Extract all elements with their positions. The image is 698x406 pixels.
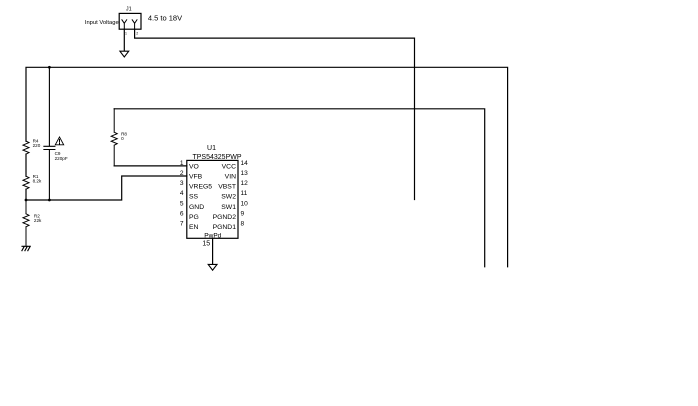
pin numbers U1 right xyxy=(241,160,249,228)
ground (U1 thermal pad) xyxy=(208,264,217,270)
svg-text:9: 9 xyxy=(241,210,245,217)
wire FB rail xyxy=(26,176,187,200)
svg-text:U1: U1 xyxy=(207,145,216,152)
ground (J1 input return) xyxy=(120,51,129,57)
svg-text:PG: PG xyxy=(189,214,199,221)
wire J1 pin1 to ground xyxy=(123,29,125,51)
resistor R8 xyxy=(111,109,127,166)
svg-text:8: 8 xyxy=(241,221,245,228)
svg-text:VIN: VIN xyxy=(225,174,236,181)
wire VO pin1 to R8 xyxy=(114,165,187,167)
svg-text:Input Voltage: Input Voltage xyxy=(85,20,119,26)
svg-text:8.2k: 8.2k xyxy=(33,179,42,184)
ground (R2, analog) xyxy=(22,246,30,250)
svg-text:5: 5 xyxy=(180,200,184,207)
svg-text:VCC: VCC xyxy=(222,163,236,170)
svg-text:7: 7 xyxy=(180,221,184,228)
svg-text:2: 2 xyxy=(136,32,138,36)
connector J1 xyxy=(119,6,141,35)
svg-text:SW2: SW2 xyxy=(221,194,236,201)
svg-text:2: 2 xyxy=(180,170,184,177)
pin labels U1 right xyxy=(213,163,237,231)
svg-text:1: 1 xyxy=(125,32,127,36)
resistor R2 xyxy=(23,200,42,246)
svg-text:12: 12 xyxy=(241,180,249,187)
wire R4 to R1 xyxy=(25,154,27,176)
svg-text:PGND1: PGND1 xyxy=(213,224,237,231)
svg-text:220: 220 xyxy=(33,143,41,148)
svg-text:10: 10 xyxy=(241,200,249,207)
op-amp U1 TPS54325PWP body xyxy=(187,145,242,247)
svg-text:EN: EN xyxy=(189,224,199,231)
svg-text:6: 6 xyxy=(180,210,184,217)
svg-text:VFB: VFB xyxy=(189,174,203,181)
node FB junctions xyxy=(25,199,28,202)
svg-text:22k: 22k xyxy=(34,218,42,223)
svg-text:1: 1 xyxy=(180,160,184,167)
svg-text:J1: J1 xyxy=(126,6,132,12)
pin labels U1 left xyxy=(189,163,212,231)
wire VO sense top rail: divider top to output rail xyxy=(26,67,508,266)
svg-text:13: 13 xyxy=(241,170,249,177)
pin numbers U1 left xyxy=(180,160,184,228)
svg-text:220pF: 220pF xyxy=(55,156,68,161)
node top rail / C9 junction xyxy=(48,66,51,69)
svg-text:SW1: SW1 xyxy=(221,204,236,211)
svg-text:0: 0 xyxy=(121,136,124,141)
svg-text:SS: SS xyxy=(189,194,199,201)
svg-text:VREG5: VREG5 xyxy=(189,184,212,191)
warning triangle (C9) xyxy=(55,137,63,145)
svg-text:15: 15 xyxy=(202,241,210,248)
svg-text:PGND2: PGND2 xyxy=(213,214,237,221)
svg-text:4.5 to 18V: 4.5 to 18V xyxy=(148,14,182,23)
wire R8 to output rail xyxy=(114,109,485,267)
wire R1 to FB rail xyxy=(25,189,27,200)
svg-text:4: 4 xyxy=(180,190,184,197)
svg-text:TPS54325PWP: TPS54325PWP xyxy=(192,154,241,161)
wire U1 pin15 PwPd to ground xyxy=(212,238,214,264)
svg-text:GND: GND xyxy=(189,204,204,211)
svg-text:14: 14 xyxy=(241,160,249,167)
svg-text:VO: VO xyxy=(189,163,199,170)
resistor R1 xyxy=(23,174,42,189)
wire VIN net: J1 pin2 down, right, down to VIN rail xyxy=(135,29,415,199)
resistor R4 xyxy=(23,138,41,154)
svg-text:3: 3 xyxy=(180,180,184,187)
capacitor C9 xyxy=(44,67,68,200)
svg-text:VBST: VBST xyxy=(218,184,236,191)
svg-text:11: 11 xyxy=(241,190,248,197)
